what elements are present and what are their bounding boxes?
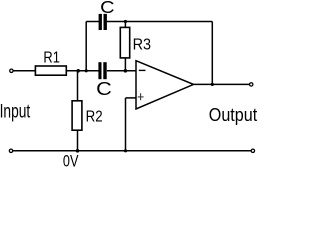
- svg-text:R2: R2: [86, 108, 103, 125]
- svg-text:0V: 0V: [63, 153, 79, 168]
- svg-text:Output: Output: [209, 104, 258, 125]
- svg-text:C: C: [96, 79, 112, 99]
- svg-text:C: C: [100, 0, 114, 17]
- svg-text:R1: R1: [43, 50, 60, 67]
- svg-text:Input: Input: [0, 101, 31, 122]
- svg-text:R3: R3: [133, 37, 152, 54]
